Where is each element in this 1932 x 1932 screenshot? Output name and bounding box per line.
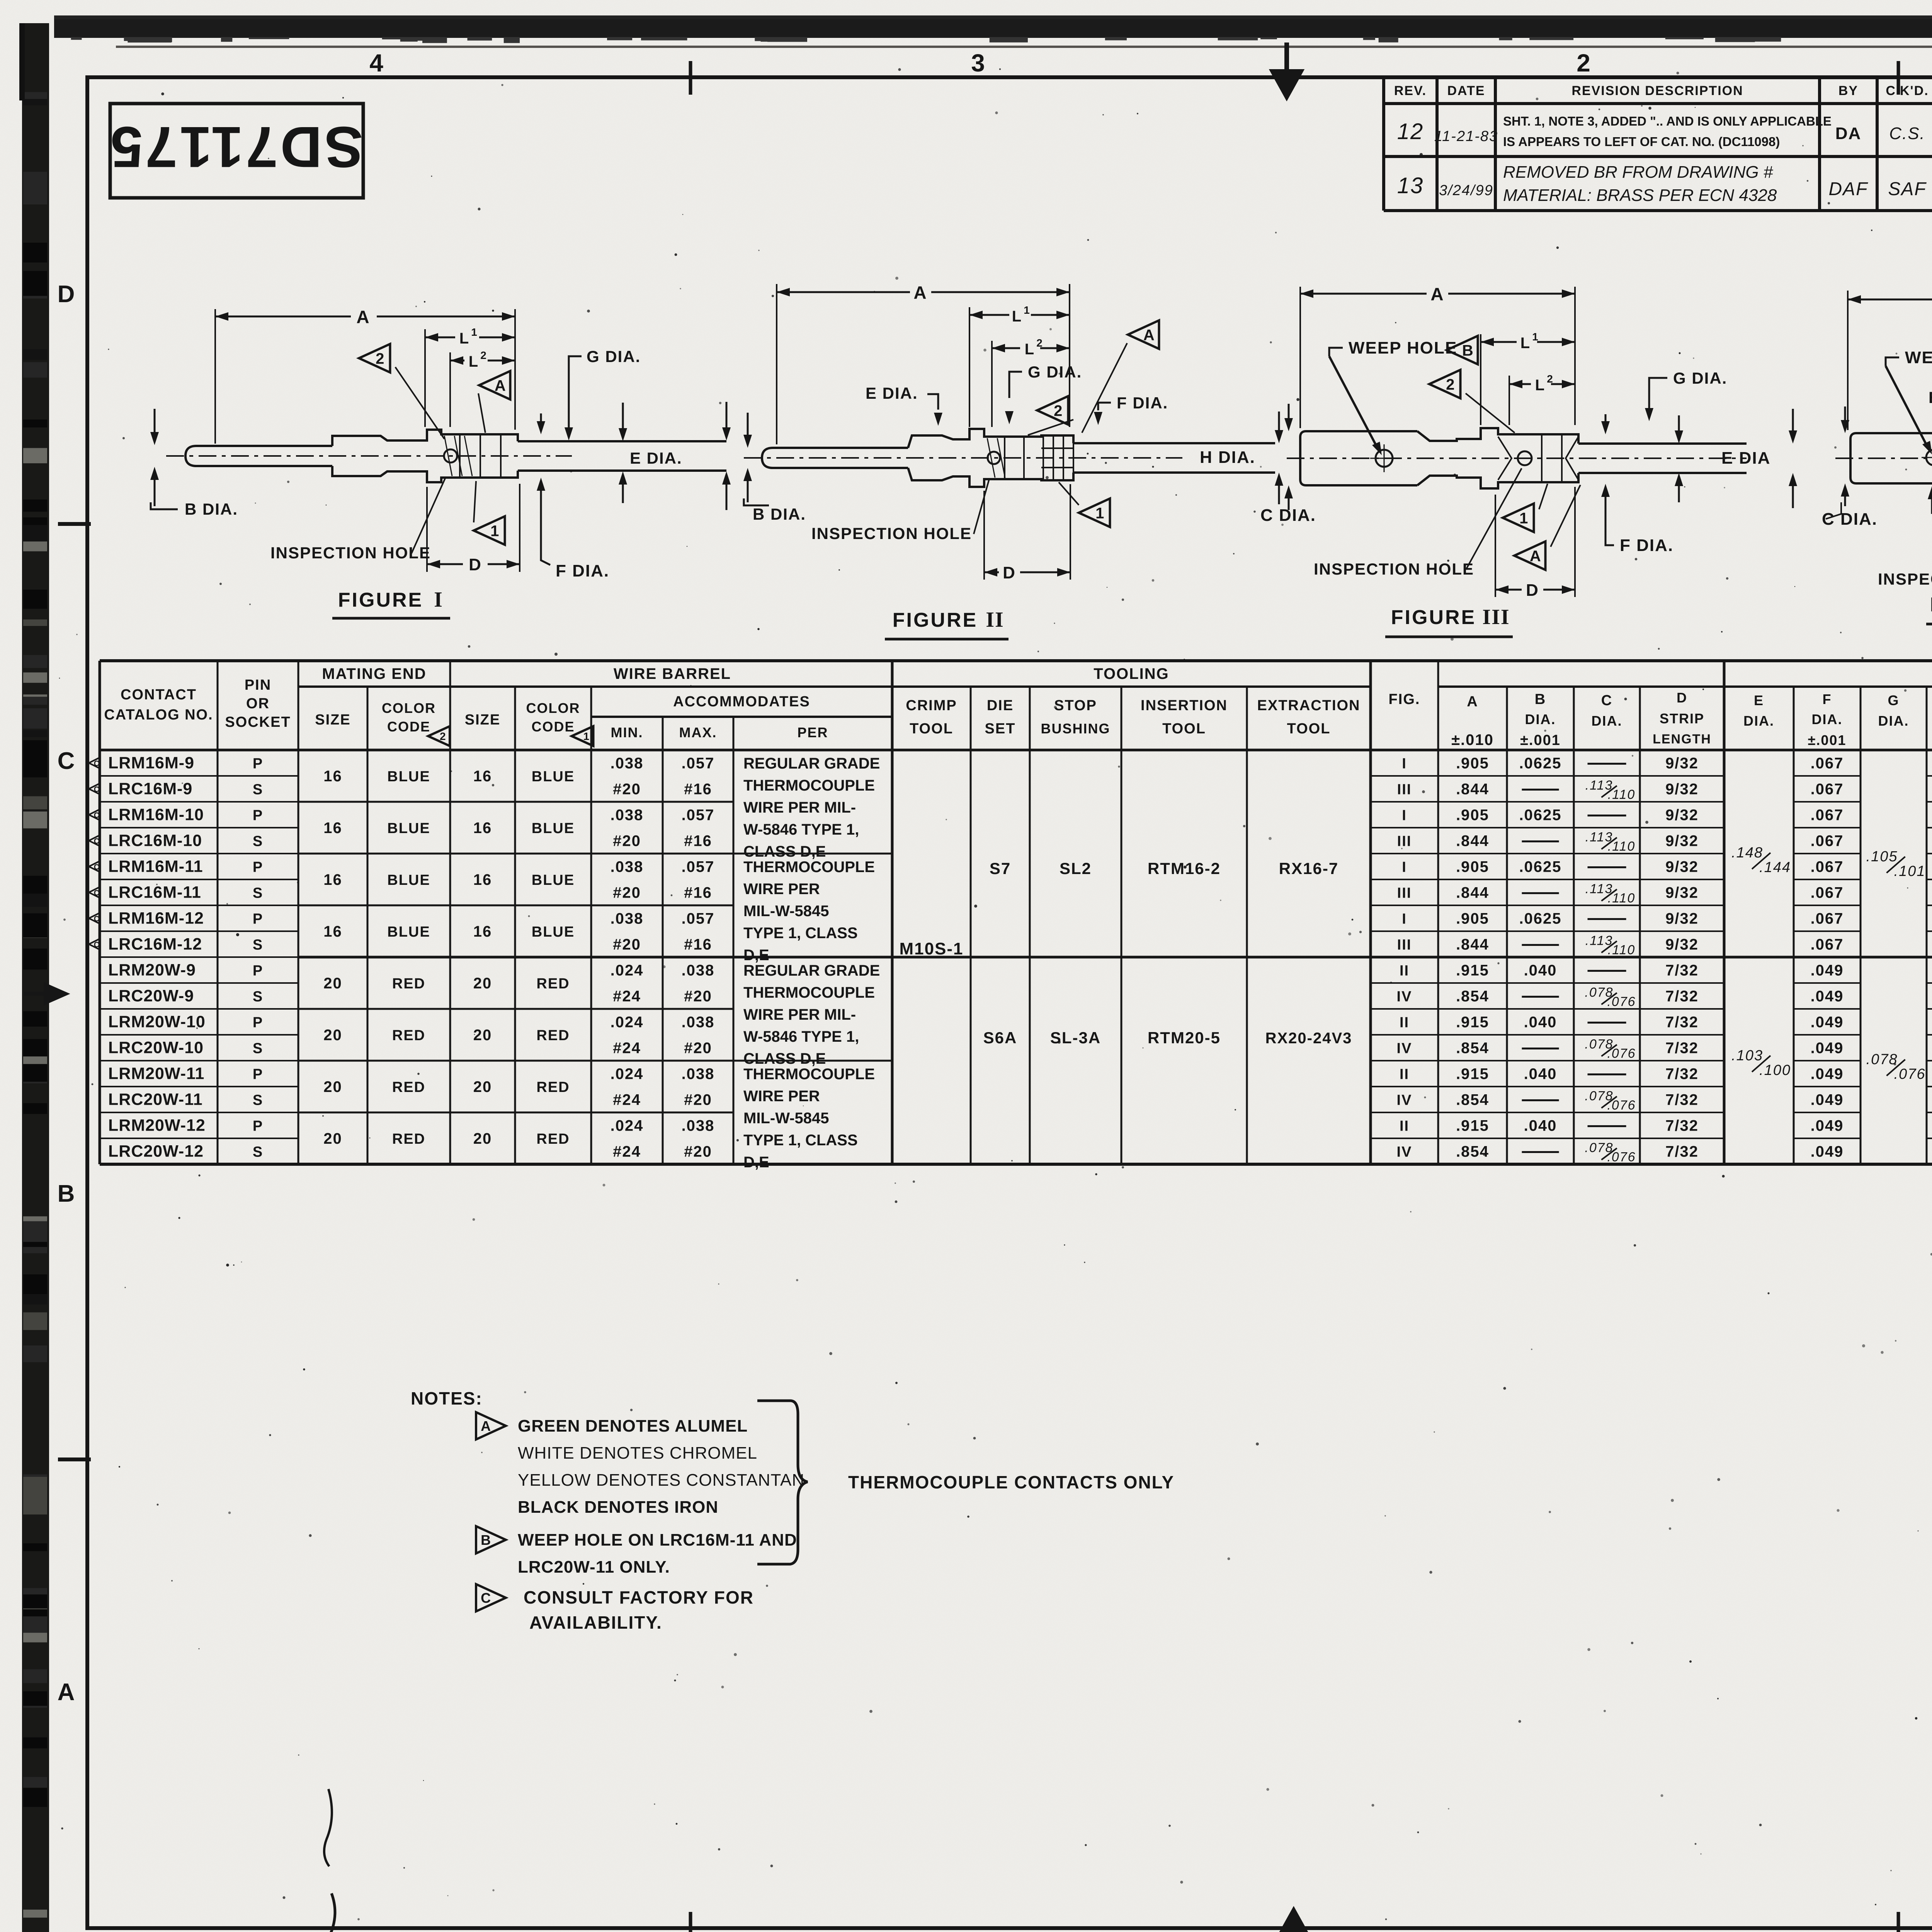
svg-text:SIZE: SIZE	[465, 712, 500, 728]
svg-text:WIRE PER MIL-: WIRE PER MIL-	[743, 799, 856, 816]
svg-text:W-5846 TYPE 1,: W-5846 TYPE 1,	[743, 821, 859, 838]
svg-text:BLUE: BLUE	[532, 872, 575, 888]
svg-text:9/32: 9/32	[1665, 859, 1699, 876]
svg-text:MIN.: MIN.	[611, 724, 643, 740]
svg-text:16: 16	[473, 871, 492, 888]
svg-text:20: 20	[323, 1130, 342, 1147]
svg-text:.040: .040	[1524, 1117, 1557, 1134]
svg-text:#20: #20	[684, 1143, 712, 1160]
svg-text:2: 2	[480, 349, 487, 361]
svg-text:.854: .854	[1456, 988, 1489, 1005]
svg-text:±.001: ±.001	[1520, 732, 1561, 748]
svg-text:E DIA.: E DIA.	[866, 384, 918, 402]
svg-text:2: 2	[440, 730, 446, 742]
svg-text:II: II	[1400, 1066, 1409, 1083]
svg-text:B DIA.: B DIA.	[185, 500, 238, 518]
svg-text:S6A: S6A	[983, 1029, 1017, 1047]
svg-text:2: 2	[1547, 373, 1554, 385]
svg-text:WHITE DENOTES CHROMEL: WHITE DENOTES CHROMEL	[518, 1444, 757, 1463]
svg-text:1: 1	[583, 730, 589, 742]
svg-text:II: II	[1400, 1118, 1409, 1134]
svg-text:S: S	[253, 833, 263, 850]
svg-text:III: III	[1397, 833, 1412, 850]
svg-text:W-5846 TYPE 1,: W-5846 TYPE 1,	[743, 1028, 859, 1045]
svg-text:.110: .110	[1608, 891, 1636, 906]
svg-text:SL2: SL2	[1060, 859, 1092, 878]
svg-text:#16: #16	[684, 833, 712, 850]
svg-text:9/32: 9/32	[1665, 936, 1699, 953]
svg-text:BLUE: BLUE	[387, 769, 430, 785]
svg-text:SAF: SAF	[1888, 179, 1927, 199]
svg-text:.905: .905	[1456, 859, 1489, 876]
svg-text:.101: .101	[1894, 863, 1926, 879]
svg-text:C DIA.: C DIA.	[1822, 510, 1878, 529]
svg-text:9/32: 9/32	[1665, 910, 1699, 927]
svg-text:G: G	[1888, 692, 1899, 708]
svg-text:MIL-W-5845: MIL-W-5845	[743, 903, 829, 920]
svg-text:S: S	[253, 1144, 263, 1160]
svg-text:DA: DA	[1835, 124, 1862, 143]
svg-text:WEEP HOLE: WEEP HOLE	[1905, 348, 1932, 367]
svg-text:III: III	[1397, 782, 1412, 798]
svg-text:BLUE: BLUE	[387, 924, 430, 940]
svg-text:.905: .905	[1456, 910, 1489, 927]
svg-text:I: I	[1402, 859, 1407, 876]
svg-text:L: L	[459, 330, 469, 347]
svg-text:DIA.: DIA.	[1878, 713, 1909, 729]
svg-text:C: C	[94, 786, 99, 794]
svg-text:REMOVED BR FROM DRAWING #: REMOVED BR FROM DRAWING #	[1503, 163, 1773, 182]
svg-text:G DIA.: G DIA.	[587, 347, 641, 366]
svg-text:LRM16M-12: LRM16M-12	[108, 909, 204, 928]
svg-text:.915: .915	[1456, 1117, 1489, 1134]
svg-text:PIN: PIN	[245, 677, 271, 693]
svg-text:.049: .049	[1811, 1117, 1844, 1134]
svg-text:.049: .049	[1811, 988, 1844, 1005]
svg-text:#20: #20	[684, 1092, 712, 1109]
svg-text:LRM20W-11: LRM20W-11	[108, 1065, 204, 1083]
svg-text:1: 1	[1095, 505, 1104, 522]
svg-text:F: F	[1823, 691, 1832, 707]
svg-text:CRIMP: CRIMP	[906, 697, 957, 714]
svg-text:P: P	[253, 911, 263, 927]
svg-text:.038: .038	[682, 1066, 715, 1083]
svg-text:.049: .049	[1811, 1066, 1844, 1083]
svg-text:7/32: 7/32	[1665, 1040, 1699, 1057]
svg-text:.844: .844	[1456, 833, 1489, 850]
svg-text:IV: IV	[1397, 1041, 1412, 1057]
svg-text:F DIA.: F DIA.	[1620, 536, 1673, 555]
svg-text:REVISION DESCRIPTION: REVISION DESCRIPTION	[1571, 83, 1743, 98]
svg-text:C: C	[94, 889, 99, 898]
svg-text:20: 20	[473, 1078, 492, 1095]
svg-text:RED: RED	[536, 1079, 570, 1095]
svg-text:#20: #20	[613, 936, 641, 953]
svg-text:7/32: 7/32	[1665, 1066, 1699, 1083]
svg-text:C: C	[94, 811, 99, 820]
svg-text:BLACK DENOTES IRON: BLACK DENOTES IRON	[518, 1498, 718, 1517]
svg-text:C: C	[94, 915, 99, 923]
svg-text:M10S-1: M10S-1	[899, 939, 963, 958]
svg-text:A: A	[913, 282, 927, 303]
svg-text:MAX.: MAX.	[679, 724, 717, 740]
svg-text:.915: .915	[1456, 1066, 1489, 1083]
svg-text:FIGURE: FIGURE	[338, 589, 423, 611]
svg-text:D: D	[469, 555, 482, 574]
svg-text:.049: .049	[1811, 1092, 1844, 1109]
svg-text:C.S.: C.S.	[1889, 124, 1925, 143]
svg-text:.905: .905	[1456, 807, 1489, 824]
svg-text:S: S	[253, 1092, 263, 1109]
svg-text:L: L	[1520, 335, 1531, 352]
svg-text:.0625: .0625	[1519, 859, 1561, 876]
svg-text:1: 1	[1532, 331, 1539, 343]
svg-text:RED: RED	[392, 1131, 425, 1147]
svg-text:B: B	[481, 1532, 491, 1548]
svg-text:GREEN DENOTES ALUMEL: GREEN DENOTES ALUMEL	[518, 1417, 748, 1435]
svg-text:S7: S7	[990, 859, 1011, 878]
svg-text:F DIA.: F DIA.	[1117, 394, 1168, 412]
svg-text:.057: .057	[682, 755, 715, 772]
svg-text:D,E: D,E	[743, 947, 769, 964]
svg-text:WEEP HOLE ON LRC16M-11 AND: WEEP HOLE ON LRC16M-11 AND	[518, 1531, 797, 1549]
svg-text:FIGURE: FIGURE	[893, 609, 978, 631]
svg-text:YELLOW DENOTES CONSTANTAN: YELLOW DENOTES CONSTANTAN	[518, 1471, 804, 1490]
svg-text:F DIA.: F DIA.	[556, 561, 609, 580]
svg-text:.144: .144	[1759, 859, 1791, 876]
svg-text:C: C	[58, 748, 76, 774]
svg-text:16: 16	[473, 820, 492, 837]
svg-text:COLOR: COLOR	[526, 700, 580, 716]
svg-text:2: 2	[1054, 402, 1062, 419]
svg-text:IV: IV	[1397, 1092, 1412, 1109]
svg-text:.0625: .0625	[1519, 807, 1561, 824]
svg-text:EXTRACTION: EXTRACTION	[1257, 697, 1361, 714]
svg-text:RED: RED	[536, 976, 570, 992]
svg-text:.057: .057	[682, 859, 715, 876]
svg-text:.057: .057	[682, 910, 715, 927]
svg-text:1: 1	[490, 522, 499, 539]
svg-text:THERMOCOUPLE: THERMOCOUPLE	[743, 777, 875, 794]
svg-text:COLOR: COLOR	[382, 700, 436, 716]
svg-text:#20: #20	[613, 833, 641, 850]
svg-text:LRC16M-9: LRC16M-9	[108, 780, 192, 798]
svg-text:#20: #20	[613, 884, 641, 901]
svg-text:.148: .148	[1731, 845, 1763, 861]
svg-text:INSPECTION HOLE: INSPECTION HOLE	[1314, 560, 1474, 578]
svg-text:THERMOCOUPLE CONTACTS ONLY: THERMOCOUPLE CONTACTS ONLY	[848, 1472, 1174, 1492]
svg-text:I: I	[1402, 808, 1407, 824]
svg-text:H DIA.: H DIA.	[1200, 448, 1255, 467]
svg-text:E DIA: E DIA	[1721, 449, 1770, 468]
svg-text:DIA.: DIA.	[1592, 713, 1622, 729]
svg-text:LRC20W-11: LRC20W-11	[108, 1090, 203, 1109]
svg-text:RED: RED	[536, 1131, 570, 1147]
svg-text:CLASS D,E: CLASS D,E	[743, 843, 826, 860]
svg-text:D: D	[1526, 581, 1539, 600]
svg-text:SD71175: SD71175	[108, 115, 363, 180]
svg-text:CATALOG NO.: CATALOG NO.	[104, 707, 213, 723]
svg-text:.040: .040	[1524, 1066, 1557, 1083]
svg-text:P: P	[253, 808, 263, 824]
svg-text:P: P	[253, 1015, 263, 1031]
svg-text:TYPE 1, CLASS: TYPE 1, CLASS	[743, 925, 858, 942]
svg-text:.076: .076	[1607, 1098, 1636, 1113]
svg-text:RX16-7: RX16-7	[1279, 859, 1338, 878]
svg-text:.024: .024	[611, 1066, 644, 1083]
svg-text:.076: .076	[1607, 995, 1636, 1009]
svg-text:AVAILABILITY.: AVAILABILITY.	[529, 1612, 662, 1633]
svg-text:REV.: REV.	[1394, 83, 1427, 98]
svg-text:CONSULT FACTORY FOR: CONSULT FACTORY FOR	[524, 1587, 754, 1607]
svg-text:.038: .038	[611, 807, 644, 824]
svg-text:.105: .105	[1866, 849, 1898, 865]
svg-text:.049: .049	[1811, 962, 1844, 979]
svg-text:FIGURE: FIGURE	[1930, 594, 1932, 616]
svg-text:.110: .110	[1608, 839, 1636, 854]
svg-text:.038: .038	[611, 755, 644, 772]
svg-text:.915: .915	[1456, 1014, 1489, 1031]
svg-text:REGULAR GRADE: REGULAR GRADE	[743, 755, 880, 772]
svg-text:LENGTH: LENGTH	[1653, 732, 1711, 747]
svg-text:STOP: STOP	[1054, 697, 1097, 714]
svg-text:DATE: DATE	[1447, 83, 1485, 98]
svg-text:.024: .024	[611, 962, 644, 979]
svg-text:TOOL: TOOL	[1162, 721, 1206, 737]
svg-text:LRC16M-11: LRC16M-11	[108, 883, 201, 902]
svg-text:III: III	[1482, 605, 1510, 629]
svg-text:C: C	[481, 1590, 491, 1606]
svg-text:BUSHING: BUSHING	[1041, 721, 1110, 736]
svg-text:#24: #24	[613, 1092, 641, 1109]
svg-text:.040: .040	[1524, 962, 1557, 979]
svg-text:DIA.: DIA.	[1525, 711, 1556, 727]
svg-text:IV: IV	[1397, 989, 1412, 1005]
svg-text:.844: .844	[1456, 936, 1489, 953]
svg-text:INSPECTION HOLE: INSPECTION HOLE	[811, 524, 972, 543]
svg-text:20: 20	[323, 975, 342, 992]
svg-text:MIL-W-5845: MIL-W-5845	[743, 1110, 829, 1127]
svg-text:E DIA.: E DIA.	[630, 449, 682, 467]
svg-text:16: 16	[323, 768, 342, 785]
svg-text:B: B	[58, 1180, 76, 1207]
svg-text:B: B	[1462, 342, 1473, 359]
svg-text:.067: .067	[1811, 781, 1844, 798]
svg-text:2: 2	[1577, 49, 1591, 77]
svg-text:#20: #20	[684, 1040, 712, 1057]
svg-text:RTM20-5: RTM20-5	[1148, 1029, 1221, 1047]
svg-text:CONTACT: CONTACT	[121, 687, 197, 703]
svg-text:CODE: CODE	[387, 719, 430, 735]
svg-text:LRM20W-12: LRM20W-12	[108, 1116, 206, 1135]
svg-text:SHT. 1, NOTE 3, ADDED ".. AND: SHT. 1, NOTE 3, ADDED ".. AND IS ONLY AP…	[1503, 114, 1832, 128]
svg-text:RED: RED	[392, 976, 425, 992]
svg-text:3/24/99: 3/24/99	[1439, 182, 1493, 199]
svg-text:.076: .076	[1607, 1046, 1636, 1061]
svg-text:CODE: CODE	[531, 719, 575, 735]
svg-text:III: III	[1397, 885, 1412, 901]
svg-text:LRC20W-10: LRC20W-10	[108, 1039, 204, 1057]
svg-text:.078: .078	[1866, 1051, 1898, 1068]
svg-text:S: S	[253, 1041, 263, 1057]
svg-text:A: A	[356, 307, 370, 327]
svg-text:.057: .057	[682, 807, 715, 824]
svg-text:A: A	[1430, 284, 1444, 304]
svg-text:C: C	[94, 837, 99, 846]
svg-text:1: 1	[471, 326, 478, 338]
svg-text:B: B	[1535, 691, 1546, 707]
svg-text:II: II	[1400, 1015, 1409, 1031]
svg-text:BLUE: BLUE	[532, 924, 575, 940]
svg-text:TYPE 1, CLASS: TYPE 1, CLASS	[743, 1132, 858, 1149]
svg-text:7/32: 7/32	[1665, 962, 1699, 979]
svg-text:.049: .049	[1811, 1014, 1844, 1031]
svg-text:16: 16	[323, 871, 342, 888]
svg-text:D: D	[1677, 690, 1687, 706]
svg-text:#16: #16	[684, 936, 712, 953]
svg-text:RED: RED	[392, 1079, 425, 1095]
svg-text:7/32: 7/32	[1665, 1014, 1699, 1031]
svg-text:IV: IV	[1397, 1144, 1412, 1160]
svg-text:.067: .067	[1811, 859, 1844, 876]
svg-text:OR: OR	[246, 696, 270, 712]
svg-text:S: S	[253, 937, 263, 953]
svg-text:LRC20W-9: LRC20W-9	[108, 987, 194, 1005]
svg-text:.110: .110	[1608, 787, 1636, 802]
svg-text:L: L	[1535, 377, 1545, 394]
svg-text:NOTES:: NOTES:	[411, 1388, 483, 1408]
svg-text:BY: BY	[1838, 83, 1858, 98]
svg-text:1: 1	[1519, 510, 1528, 527]
svg-text:.038: .038	[682, 962, 715, 979]
svg-text:13: 13	[1397, 173, 1424, 198]
svg-text:.103: .103	[1731, 1048, 1763, 1064]
svg-text:DIA.: DIA.	[1812, 711, 1843, 727]
svg-text:.067: .067	[1811, 807, 1844, 824]
svg-text:.110: .110	[1608, 943, 1636, 957]
svg-text:11-21-83: 11-21-83	[1434, 128, 1498, 145]
svg-text:A: A	[495, 377, 506, 394]
svg-text:9/32: 9/32	[1665, 781, 1699, 798]
svg-text:TOOL: TOOL	[1287, 721, 1331, 737]
svg-text:S: S	[253, 989, 263, 1005]
svg-text:S: S	[253, 885, 263, 901]
svg-text:.067: .067	[1811, 936, 1844, 953]
svg-text:L: L	[1012, 308, 1022, 325]
svg-text:P: P	[253, 963, 263, 979]
svg-text:THERMOCOUPLE: THERMOCOUPLE	[743, 1066, 875, 1083]
svg-text:MATING END: MATING END	[322, 665, 426, 682]
svg-text:DAF: DAF	[1829, 179, 1869, 199]
svg-text:C DIA.: C DIA.	[1260, 506, 1316, 525]
svg-text:RED: RED	[536, 1027, 570, 1044]
svg-text:WIRE BARREL: WIRE BARREL	[614, 665, 731, 682]
svg-text:12: 12	[1397, 119, 1424, 144]
svg-text:.038: .038	[611, 910, 644, 927]
svg-text:DIA.: DIA.	[1743, 713, 1774, 729]
svg-text:P: P	[253, 1118, 263, 1134]
svg-text:#20: #20	[613, 781, 641, 798]
svg-text:SIZE: SIZE	[315, 712, 350, 728]
svg-text:BLUE: BLUE	[387, 820, 430, 837]
svg-text:.076: .076	[1607, 1150, 1636, 1165]
svg-text:WIRE PER: WIRE PER	[743, 1088, 820, 1105]
svg-text:.067: .067	[1811, 755, 1844, 772]
svg-text:C: C	[1601, 692, 1612, 709]
svg-text:.038: .038	[682, 1117, 715, 1134]
svg-text:STRIP: STRIP	[1660, 711, 1704, 726]
svg-text:.844: .844	[1456, 781, 1489, 798]
svg-text:16: 16	[323, 923, 342, 940]
svg-text:WEEP HOLE: WEEP HOLE	[1349, 338, 1457, 357]
svg-text:PER: PER	[797, 724, 828, 740]
svg-text:G DIA.: G DIA.	[1673, 369, 1727, 387]
svg-text:2: 2	[376, 350, 384, 367]
svg-text:16: 16	[473, 768, 492, 785]
svg-text:BLUE: BLUE	[532, 769, 575, 785]
svg-text:SET: SET	[985, 721, 1016, 737]
svg-text:LRC20W-11 ONLY.: LRC20W-11 ONLY.	[518, 1558, 670, 1577]
svg-text:.067: .067	[1811, 910, 1844, 927]
svg-text:RED: RED	[392, 1027, 425, 1044]
svg-text:TOOLING: TOOLING	[1094, 665, 1169, 682]
svg-text:16: 16	[473, 923, 492, 940]
svg-text:2: 2	[1446, 376, 1454, 393]
svg-text:±.010: ±.010	[1451, 731, 1494, 748]
svg-text:INSERTION: INSERTION	[1141, 697, 1228, 714]
svg-text:SL-3A: SL-3A	[1050, 1029, 1101, 1047]
svg-text:#16: #16	[684, 884, 712, 901]
svg-text:THERMOCOUPLE: THERMOCOUPLE	[743, 859, 875, 876]
svg-text:.038: .038	[611, 859, 644, 876]
svg-text:BLUE: BLUE	[387, 872, 430, 888]
svg-text:#24: #24	[613, 1143, 641, 1160]
svg-text:C: C	[94, 941, 99, 949]
svg-text:.024: .024	[611, 1014, 644, 1031]
svg-text:7/32: 7/32	[1665, 1143, 1699, 1160]
svg-text:P: P	[253, 756, 263, 772]
svg-text:20: 20	[323, 1027, 342, 1044]
svg-text:D: D	[58, 281, 76, 308]
svg-text:C: C	[94, 863, 99, 872]
svg-text:.0625: .0625	[1519, 910, 1561, 927]
svg-text:FIGURE: FIGURE	[1391, 606, 1476, 629]
svg-text:.0625: .0625	[1519, 755, 1561, 772]
svg-text:ACCOMMODATES: ACCOMMODATES	[673, 694, 810, 710]
svg-text:±.001: ±.001	[1808, 732, 1847, 748]
svg-text:7/32: 7/32	[1665, 1092, 1699, 1109]
svg-text:REGULAR GRADE: REGULAR GRADE	[743, 962, 880, 979]
svg-text:THERMOCOUPLE: THERMOCOUPLE	[743, 984, 875, 1001]
svg-text:LRC16M-10: LRC16M-10	[108, 832, 202, 850]
svg-text:P: P	[253, 1066, 263, 1083]
svg-text:I: I	[1402, 911, 1407, 927]
svg-text:FIG.: FIG.	[1389, 691, 1420, 707]
svg-text:20: 20	[473, 975, 492, 992]
svg-text:B DIA.: B DIA.	[753, 505, 806, 523]
svg-text:INSPECTION HOLE: INSPECTION HOLE	[270, 544, 431, 562]
svg-text:4: 4	[369, 49, 384, 77]
svg-text:LRM20W-9: LRM20W-9	[108, 961, 196, 980]
svg-text:3: 3	[971, 49, 986, 77]
svg-text:A: A	[1467, 694, 1478, 710]
svg-text:D,E: D,E	[743, 1154, 769, 1171]
svg-text:E DIA.: E DIA.	[1929, 388, 1932, 406]
svg-text:L: L	[1025, 341, 1035, 358]
svg-text:LRM20W-10: LRM20W-10	[108, 1013, 206, 1031]
svg-text:RX20-24V3: RX20-24V3	[1265, 1030, 1352, 1047]
svg-text:BLUE: BLUE	[532, 820, 575, 837]
